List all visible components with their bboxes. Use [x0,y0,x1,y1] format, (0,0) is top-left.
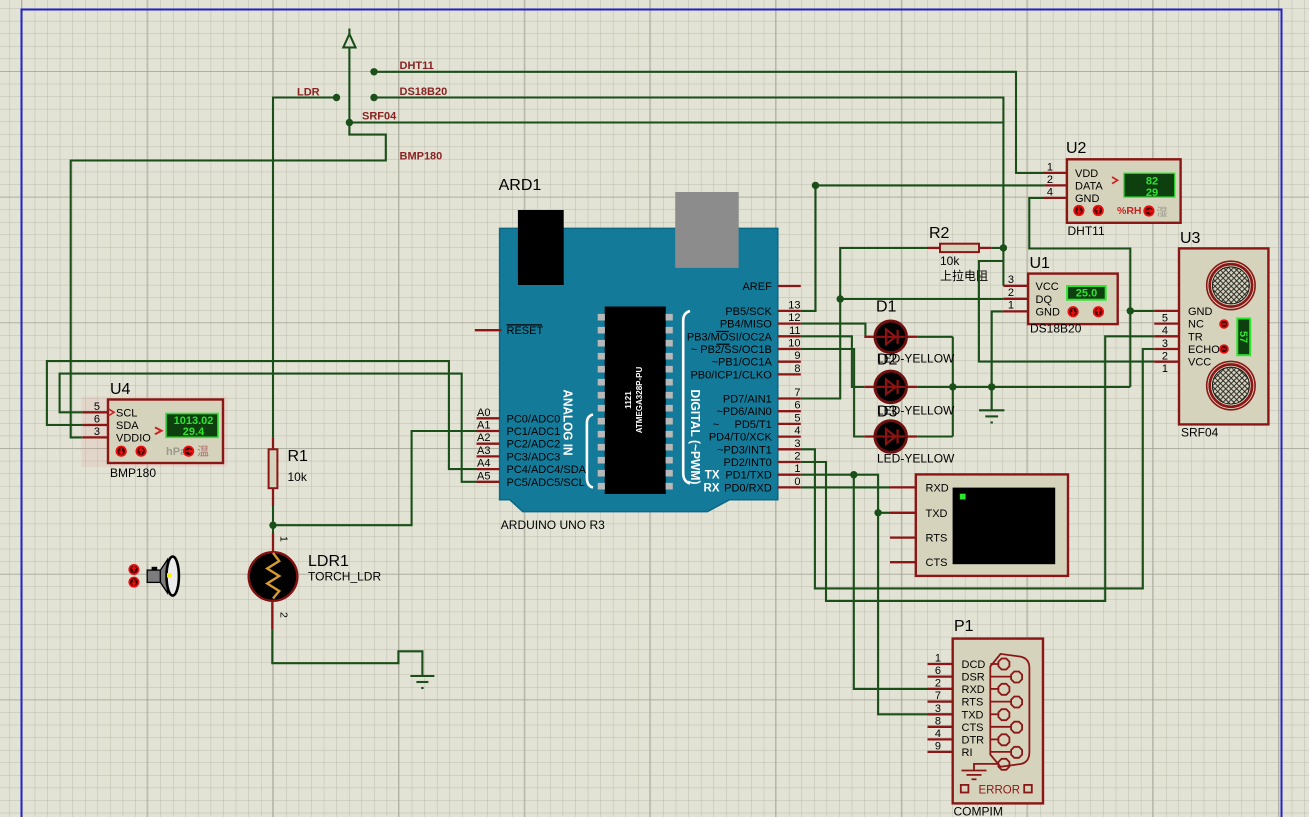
pin 1 DCD [928,663,953,665]
node junction SRF04 GND [1127,307,1134,314]
LDR1 [249,533,382,629]
ground inside COMPIM [962,764,991,779]
svg-text:RI: RI [962,747,973,759]
pin 6 DSR [928,675,953,677]
wire terminal TXD branch to COMPIM TXD [878,513,927,715]
svg-text:DQ: DQ [1036,294,1053,306]
pin 9 PB1/OC1A [778,361,801,363]
svg-text:PC2/ADC2: PC2/ADC2 [507,439,561,451]
svg-text:PD7/AIN1: PD7/AIN1 [723,394,772,406]
wire net DHT11 to U2 VDD [374,72,1043,173]
pin 0 PD0/RXD [778,486,801,488]
svg-text:上拉电阻: 上拉电阻 [940,268,988,283]
svg-text:ERROR: ERROR [979,784,1021,796]
svg-text:12: 12 [788,312,800,324]
wire pin2 to SRF04 TR [801,336,1155,601]
svg-text:U4: U4 [110,381,131,398]
node junction R2 right [1000,244,1007,251]
indicator led ECHO row [1219,344,1229,354]
svg-text:ARDUINO UNO R3: ARDUINO UNO R3 [501,518,605,532]
svg-text:ATMEGA328P-PU: ATMEGA328P-PU [635,367,644,434]
pin 2 PD2/INT0 [778,461,801,463]
pin A1 PC1/ADC1 [477,430,500,432]
svg-text:DSR: DSR [962,672,985,684]
svg-text:6: 6 [94,414,100,426]
svg-text:GND: GND [1188,306,1213,318]
svg-text:%RH: %RH [1117,205,1142,217]
pin 8 PB0/ICP1/CLKO [778,373,801,375]
node junction DATA [812,182,819,189]
svg-text:D3: D3 [877,404,898,421]
svg-text:TX: TX [705,470,720,482]
indicator led NC row [1219,319,1229,329]
pin 3 TR [1154,335,1179,337]
pin 8 CTS [928,726,953,728]
pin 7 RTS [928,700,953,702]
wire net DS18B20 down to R2 right node [374,98,1003,248]
svg-text:PC0/ADC0: PC0/ADC0 [507,413,561,425]
svg-text:PB4/MISO: PB4/MISO [720,319,772,331]
node junction DQ [837,295,844,302]
svg-text:VCC: VCC [1036,281,1059,293]
svg-text:PB0/ICP1/CLKO: PB0/ICP1/CLKO [690,369,772,381]
svg-text:ECHO: ECHO [1188,344,1220,356]
svg-text:U3: U3 [1180,230,1201,247]
pin 4 DTR [928,738,953,740]
svg-text:PC3/ADC3: PC3/ADC3 [507,451,561,463]
svg-text:13: 13 [788,299,800,311]
buttons [116,446,127,457]
svg-text:VDDIO: VDDIO [116,432,151,444]
ground symbol bottom [410,676,434,688]
power terminal arrow [343,29,355,123]
svg-text:D2: D2 [877,352,898,369]
svg-text:ARD1: ARD1 [499,177,542,194]
pin 10 PB2/SS/OC1B [778,348,801,350]
BMP180 U4 [82,381,228,480]
svg-text:10: 10 [788,338,800,350]
svg-text:GND: GND [1036,307,1061,319]
svg-text:A0: A0 [477,407,490,419]
svg-text:TXD: TXD [962,709,984,721]
svg-text:DCD: DCD [962,659,986,671]
chip pins left [598,314,605,490]
wire R2 left to DQ node and pin7 [801,248,928,399]
wire SRF04 GND stub link [1130,310,1154,312]
wire U2 GND route to SRF04 GND rail [1029,198,1130,387]
svg-text:DIGITAL (~PWM): DIGITAL (~PWM) [688,390,703,485]
svg-text:温: 温 [197,445,209,459]
wire pin11 to D2 anode [801,336,865,387]
svg-text:TORCH_LDR: TORCH_LDR [308,570,381,584]
svg-text:DS18B20: DS18B20 [400,86,448,98]
svg-text:U2: U2 [1066,140,1087,157]
pin A2 PC2/ADC2 [477,443,500,445]
svg-text:A1: A1 [477,420,490,432]
node DS18B20 wire end [370,94,377,101]
distance display 57 [1237,319,1250,356]
selection halo [82,397,228,468]
svg-text:29: 29 [1146,187,1158,199]
pin 2 ECHO [1154,348,1179,350]
node junction terminal TXD [874,509,881,516]
Arduino board ARD1 [475,177,778,532]
svg-text:CTS: CTS [926,557,948,569]
svg-text:PC4/ADC4/SDA: PC4/ADC4/SDA [507,464,587,476]
wire power branch down to BMP180 net [71,123,386,438]
wire U1 GND down to rail [992,311,1003,387]
pin 4 PD4/T0/XCK [778,435,801,437]
svg-text:1: 1 [794,463,800,475]
wire SCL to A5 [60,374,477,482]
svg-text:A4: A4 [477,458,490,470]
svg-text:4: 4 [794,425,800,437]
pin 5 GND [1154,310,1179,312]
svg-text:U1: U1 [1030,255,1051,272]
node junction SRF04 [346,119,353,126]
svg-text:2: 2 [794,451,800,463]
Arduino right pins [687,281,801,494]
pin A0 PC0/ADC0 [477,417,500,419]
chip pins right [666,314,673,490]
svg-text:3: 3 [794,438,800,450]
svg-text:4: 4 [1047,186,1053,198]
wire U2 DATA horizontal [816,184,1045,186]
svg-text:3: 3 [1008,274,1014,286]
svg-text:ANALOG IN: ANALOG IN [561,390,576,456]
svg-text:RTS: RTS [962,697,984,709]
svg-text:2: 2 [1047,174,1053,186]
svg-text:~PB1/OC1A: ~PB1/OC1A [712,357,773,369]
svg-text:DHT11: DHT11 [400,60,434,72]
svg-text:VCC: VCC [1188,357,1211,369]
svg-text:7: 7 [935,690,941,702]
svg-text:3: 3 [935,703,941,715]
svg-text:3: 3 [94,426,100,438]
svg-text:10k: 10k [940,254,960,268]
pin A4 PC4/ADC4/SDA [477,468,500,470]
svg-text:6: 6 [794,400,800,412]
brace right digital [683,311,690,484]
DHT11 U2 [1043,140,1181,238]
svg-text:AREF: AREF [742,281,772,293]
pin 2 RXD [928,688,953,690]
pin 9 RI [928,751,953,753]
speaker icon [128,557,179,596]
Arduino left pins A0-A5 [477,407,587,489]
node junction rail at LED column [949,383,956,390]
svg-text:1: 1 [278,536,290,542]
node junction TXD pin1 [850,471,857,478]
svg-text:RTS: RTS [926,533,948,545]
node DHT11 wire end [370,68,377,75]
wire pin0 to terminal RXD [801,486,890,488]
svg-text:RESET: RESET [507,325,544,337]
wire pin3 to SRF04 ECHO [801,349,1155,588]
svg-text:LED-YELLOW: LED-YELLOW [877,452,955,466]
wire divider to A1 [273,431,477,525]
svg-text:4: 4 [935,728,941,740]
svg-text:SRF04: SRF04 [1181,426,1219,440]
LED D3 [864,404,955,466]
wire LDR to ground [272,629,422,676]
power jack [518,210,564,285]
svg-text:6: 6 [935,665,941,677]
svg-text:PB3/MOSI/OC2A: PB3/MOSI/OC2A [687,331,773,343]
svg-text:RXD: RXD [962,684,985,696]
transducer bottom [1207,361,1255,409]
wire R2 right node branches [991,248,1003,286]
svg-text:PB5/SCK: PB5/SCK [725,306,772,318]
svg-text:5: 5 [94,401,100,413]
virtual terminal [890,474,1068,576]
resistor R1 [269,437,308,506]
wire D3 cathode link [917,435,953,437]
svg-text:0: 0 [794,476,800,488]
pin A5 PC5/ADC5/SCL [477,481,500,483]
pin RESET [475,329,502,331]
svg-text:LDR: LDR [297,87,320,99]
svg-text:P1: P1 [954,618,974,635]
svg-text:D1: D1 [876,299,897,316]
svg-text:BMP180: BMP180 [110,466,156,480]
svg-text:PC5/ADC5/SCL: PC5/ADC5/SCL [507,477,585,489]
wire net LDR [273,98,337,438]
svg-text:11: 11 [789,325,800,337]
svg-text:PC1/ADC1: PC1/ADC1 [507,426,561,438]
svg-text:A3: A3 [477,445,490,457]
svg-text:1: 1 [1047,161,1053,173]
SRF04 U3 [1154,230,1268,440]
ATMEGA328 chip [605,307,666,495]
DB9 shell [990,654,1029,767]
svg-text:CTS: CTS [962,722,984,734]
svg-text:2: 2 [935,677,941,689]
svg-text:57: 57 [1237,331,1249,343]
transducer top [1207,261,1255,309]
svg-text:TR: TR [1188,331,1203,343]
svg-text:DATA: DATA [1075,180,1103,192]
pin 1 VCC [1154,361,1179,363]
svg-text:NC: NC [1188,319,1204,331]
pin 7 PD7/AIN1 [778,397,801,399]
svg-text:~PD3/INT1: ~PD3/INT1 [717,444,772,456]
svg-text:R2: R2 [929,225,950,242]
svg-text:PD1/TXD: PD1/TXD [725,470,772,482]
pin 3 TXD [928,713,953,715]
svg-text:2: 2 [278,612,290,618]
pin 3 PD3/INT1 [778,448,801,450]
pin 1 PD1/TXD [778,474,801,476]
pin A3 PC3/ADC3 [477,455,500,457]
svg-text:湿: 湿 [1157,206,1168,219]
wire pin1 branch to COMPIM RXD [854,475,928,689]
svg-text:9: 9 [935,740,941,752]
pin 6 PD6/AIN0 [778,410,801,412]
svg-text:82: 82 [1146,175,1158,187]
svg-text:GND: GND [1075,193,1100,205]
svg-text:1: 1 [935,653,941,665]
svg-text:7: 7 [794,387,800,399]
wire pin13 to DHT11 DATA node [801,185,816,311]
ground symbol under rail [979,387,1004,423]
svg-text:PD2/INT0: PD2/INT0 [724,457,772,469]
svg-text:29.4: 29.4 [183,426,205,438]
svg-text:~ PD5/T1: ~ PD5/T1 [713,419,772,431]
svg-text:A5: A5 [477,470,490,482]
svg-text:~ PB2/SS/OC1B: ~ PB2/SS/OC1B [691,344,772,356]
svg-text:PD0/RXD: PD0/RXD [724,482,772,494]
svg-text:VDD: VDD [1075,168,1098,180]
wire LED cathode column [952,337,954,437]
pin 5 SCL [83,411,108,413]
svg-text:8: 8 [794,363,800,375]
board body [500,228,778,511]
wire pin10 to D3 anode [801,349,865,437]
LED D1 [864,299,955,366]
svg-text:2: 2 [1008,287,1014,299]
LED D2 [864,352,955,418]
node LDR wire end [333,94,340,101]
wire ground rail [917,386,1130,388]
pin AREF [778,285,801,287]
svg-text:LDR1: LDR1 [308,553,349,570]
wire DQ horizontal to U1 [840,298,1003,300]
svg-text:DHT11: DHT11 [1068,224,1105,238]
svg-text:1: 1 [1008,300,1014,312]
ERROR indicator [961,785,969,793]
pin 11 PB3/MOSI/OC2A [778,335,801,337]
svg-text:PD4/T0/XCK: PD4/T0/XCK [709,432,773,444]
DS18B20 U1 [1003,255,1118,336]
wire pin1 TXD net [801,475,890,513]
svg-text:25.0: 25.0 [1076,288,1097,300]
wire SDA to A4 [47,361,477,469]
svg-text:BMP180: BMP180 [400,151,443,163]
wire R1 bottom to junction [272,506,274,533]
USB connector [675,192,738,268]
svg-text:SDA: SDA [116,420,139,432]
pin 4 NC [1154,322,1179,324]
brace left analog [587,415,593,488]
svg-text:5: 5 [794,412,800,424]
svg-text:8: 8 [935,715,941,727]
pin 6 SDA [83,424,108,426]
svg-text:A2: A2 [477,432,490,444]
svg-text:1: 1 [1162,363,1168,375]
svg-text:R1: R1 [288,448,309,465]
svg-text:SCL: SCL [116,407,137,419]
resistor R2 [928,225,992,283]
COMPIM P1 [928,618,1044,817]
DB9 holes [998,659,1022,770]
svg-text:SRF04: SRF04 [362,111,397,123]
pin 12 PB4/MISO [778,322,801,324]
svg-text:COMPIM: COMPIM [954,805,1003,817]
svg-text:RXD: RXD [926,482,949,494]
svg-text:RX: RX [704,482,720,494]
svg-text:9: 9 [794,350,800,362]
svg-text:TXD: TXD [926,508,948,520]
pin 5 PD5/T1 [778,423,801,425]
wire pin12 to D1 anode [801,324,866,337]
svg-text:DS18B20: DS18B20 [1030,322,1082,336]
pin 13 PB5/SCK [778,310,801,312]
svg-text:~PD6/AIN0: ~PD6/AIN0 [716,406,771,418]
svg-text:10k: 10k [288,470,308,484]
svg-text:1121: 1121 [624,391,633,409]
svg-text:DTR: DTR [962,734,985,746]
node junction divider [269,522,276,529]
wire D1 cathode link [917,336,953,338]
pin 3 VDDIO [83,436,108,438]
wire net SRF04 horizontal [349,121,1003,123]
pressure display [166,414,218,438]
node junction rail at gnd [988,383,995,390]
